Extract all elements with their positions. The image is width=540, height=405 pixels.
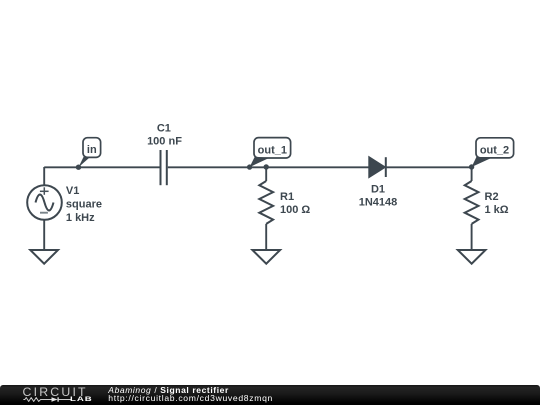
- wire R1 top stub: [265, 167, 267, 181]
- svg-text:out_1: out_1: [258, 145, 287, 157]
- capacitor C1 left plate: [160, 150, 162, 185]
- node in: flag box: [83, 138, 101, 158]
- voltage source V1 minus sign: [40, 212, 48, 214]
- node out_1: anchor dot: [247, 164, 252, 169]
- node in: anchor dot: [76, 165, 81, 170]
- svg-text:1N4148: 1N4148: [359, 197, 398, 209]
- wire V1 bottom to ground: [43, 219, 45, 250]
- node out_2: flag box: [476, 138, 514, 158]
- svg-text:R1: R1: [280, 191, 294, 203]
- footer logo LAB: [70, 396, 93, 403]
- resistor R2 zigzag: [465, 181, 479, 224]
- svg-text:C1: C1: [157, 123, 171, 135]
- voltage source V1 circle: [27, 185, 62, 220]
- node in: flag pointer: [79, 156, 91, 167]
- wire R2 bottom to ground: [471, 224, 473, 250]
- voltage source V1 sine wave: [36, 195, 54, 211]
- node out_2: anchor dot: [469, 164, 474, 169]
- voltage source V1 plus sign: [40, 187, 49, 195]
- wire main horizontal: V1 top to C1 left plate: [44, 166, 159, 168]
- footer logo doodle: resistor + diode: [23, 397, 72, 402]
- diode D1 cathode bar: [385, 157, 387, 177]
- svg-text:out_2: out_2: [480, 145, 509, 157]
- wire R1 bottom to ground: [265, 224, 267, 250]
- wire R2 top stub: [471, 167, 473, 181]
- svg-text:V1: V1: [66, 185, 79, 197]
- node out_2: flag pointer: [472, 157, 491, 167]
- svg-text:D1: D1: [371, 184, 385, 196]
- ground below R1: [252, 250, 280, 264]
- svg-text:100 Ω: 100 Ω: [280, 204, 310, 216]
- wire V1 top riser: [43, 167, 45, 186]
- node out_1: flag box: [254, 138, 291, 158]
- svg-text:in: in: [87, 144, 97, 156]
- ground below V1: [30, 250, 58, 264]
- diode D1 triangle: [369, 158, 384, 177]
- footer bar: [0, 385, 540, 405]
- svg-text:100 nF: 100 nF: [147, 135, 182, 147]
- footer credit line: [108, 386, 273, 403]
- svg-text:R2: R2: [485, 191, 499, 203]
- capacitor C1 right plate: [166, 150, 168, 185]
- ground below R2: [458, 250, 486, 264]
- footer logo CIRCUIT: [23, 385, 88, 399]
- resistor R1 zigzag: [259, 181, 273, 224]
- wire main horizontal: C1 right plate to D1 anode: [168, 166, 370, 168]
- junction dot at R1 top: [264, 164, 269, 169]
- svg-text:1 kΩ: 1 kΩ: [485, 204, 509, 216]
- node out_1: flag pointer: [250, 157, 269, 168]
- svg-text:1 kHz: 1 kHz: [66, 212, 95, 224]
- svg-text:square: square: [66, 198, 102, 210]
- wire main horizontal: D1 cathode to out_2 junction: [386, 166, 472, 168]
